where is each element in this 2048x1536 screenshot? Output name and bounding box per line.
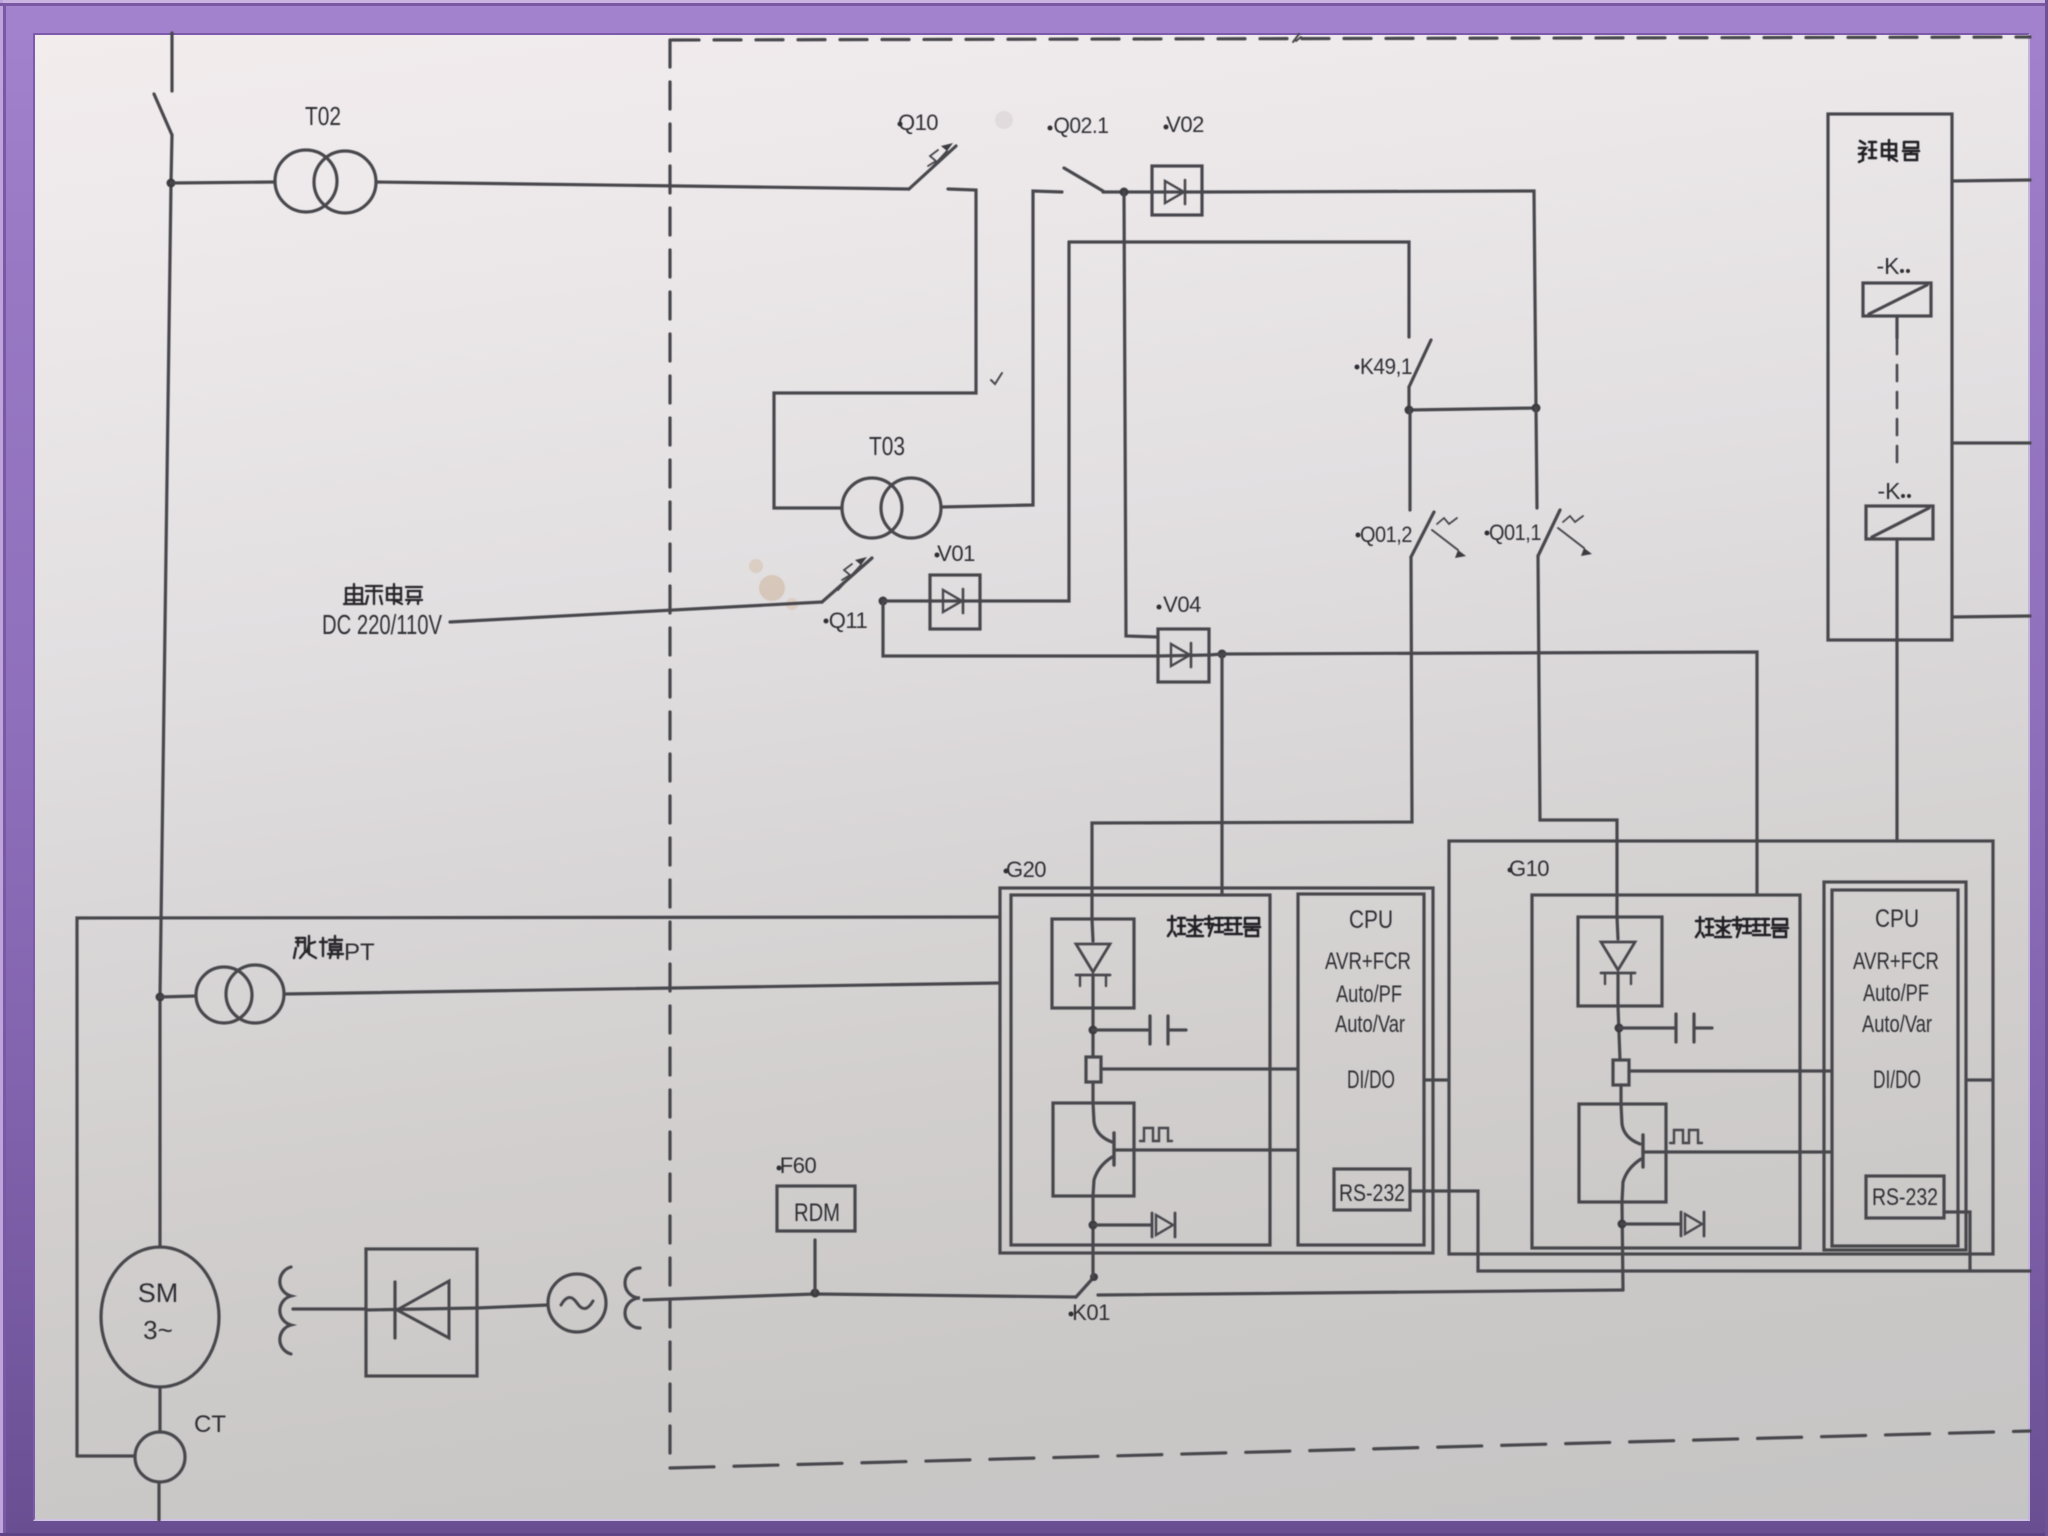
svg-text:Q01,2: Q01,2 — [1360, 522, 1412, 547]
wire: junction to PT — [160, 996, 196, 997]
wire: Q11 to V01 — [883, 599, 930, 602]
wire: T03 up to Q02.1 — [941, 191, 1062, 507]
dashed enclosure box (excitation cabinet boundary) — [670, 37, 2030, 1468]
inductor: exciter stator winding — [625, 1268, 640, 1328]
svg-text:SM: SM — [138, 1278, 179, 1308]
current transformer CT — [135, 1432, 185, 1482]
transformer T03 — [842, 478, 941, 538]
wire: relay chain upper — [1895, 316, 1898, 338]
wire: G10 column below chopper — [1622, 1202, 1623, 1290]
wire: V02 output over and down — [1202, 191, 1536, 408]
label K01 — [1069, 1312, 1074, 1317]
svg-text:Auto/PF: Auto/PF — [1336, 981, 1402, 1008]
node: T02 tap junction — [167, 179, 176, 188]
node: RDM tap junction — [811, 1289, 820, 1298]
label G20 — [1004, 869, 1009, 874]
wire: DC branch down to V04 — [883, 601, 1158, 656]
label Q10 — [898, 122, 903, 127]
svg-text:V01: V01 — [937, 541, 975, 566]
switch Q02.1 — [1064, 168, 1103, 191]
wire: relay stub middle to edge — [1952, 441, 2030, 444]
svg-text:K49,1: K49,1 — [1360, 354, 1412, 379]
block G10 power converter box — [1532, 895, 1800, 1248]
wire: T02 to Q10 — [376, 182, 909, 189]
wire: RDM drop — [813, 1240, 816, 1293]
artifact tick on top dashed line — [1293, 34, 1301, 42]
wire: left leg bottom link to CT — [77, 1454, 135, 1457]
switch Q10 — [909, 143, 956, 189]
wire: G20 DI/DO external stub — [1424, 1078, 1449, 1081]
sensor square G10 (firing interface) — [1613, 1060, 1629, 1085]
svg-text:Q11: Q11 — [829, 608, 868, 633]
wire: Q10 output down and over to T03 — [774, 189, 976, 508]
capacitor: G10 snubber — [1619, 1014, 1712, 1042]
switch: generator bus disconnect (top-left) — [154, 94, 172, 135]
svg-text:K01: K01 — [1072, 1300, 1110, 1325]
wire: main generator bus vertical (top segment) — [170, 33, 173, 91]
label 功率转换器 (power converter) G20 — [1168, 916, 1260, 936]
label 继电器 (relay) — [1859, 140, 1919, 162]
wire: V01 output riser to K49.1 feeder — [980, 242, 1069, 601]
wire: G20 RS-232 comm line to edge — [1410, 1191, 2030, 1271]
wire: V02 junction drop to V04 — [1124, 192, 1158, 637]
wire: G10 RS-232 comm stub — [1944, 1212, 1970, 1271]
transistor Q20 (G20 chopper) — [1053, 1103, 1134, 1196]
node: G20 snubber junction — [1089, 1026, 1098, 1035]
svg-text:-K: -K — [1878, 478, 1902, 504]
svg-text:V04: V04 — [1163, 592, 1201, 617]
svg-text:CPU: CPU — [1875, 905, 1919, 933]
node: G20 freewheel junction — [1089, 1221, 1098, 1230]
node: V04 output junction — [1218, 650, 1227, 659]
wire: excitation bus right of K01 — [1098, 1290, 1623, 1295]
wire: G10 interface to CPU (DI/DO) — [1629, 1069, 1832, 1072]
svg-text:DI/DO: DI/DO — [1873, 1066, 1921, 1094]
wire: G20 interface to CPU (DI/DO) — [1101, 1067, 1298, 1070]
pulse symbol G20 — [1140, 1128, 1172, 1141]
node: junction right — [1532, 404, 1541, 413]
wire: relay cabinet feed to G10 — [1895, 640, 1898, 841]
svg-text:-K: -K — [1877, 253, 1901, 279]
wire: G10 interface to IGBT — [1619, 1085, 1622, 1104]
source: AC exciter generator — [548, 1274, 606, 1332]
wire: relay chain dashed — [1896, 338, 1899, 469]
wire: bus vertical below switch — [160, 135, 172, 1247]
block G10 outer box (AVR channel 1) — [1449, 841, 1993, 1254]
label F60 — [777, 1166, 782, 1171]
svg-text:AVR+FCR: AVR+FCR — [1853, 948, 1939, 975]
svg-text:G10: G10 — [1509, 856, 1549, 881]
switch Q01.2 — [1411, 512, 1466, 558]
svg-text:Auto/PF: Auto/PF — [1863, 980, 1929, 1007]
wire: excitation bus left of K01 — [644, 1294, 1076, 1300]
label Q11 — [824, 619, 829, 624]
transistor Q10a (G10 chopper) — [1579, 1104, 1666, 1202]
wire: G20 thyristor to gate square — [1091, 1008, 1094, 1057]
block G20 outer box (AVR channel 2) — [1000, 888, 1433, 1253]
dashed enclosure bottom edge — [670, 1431, 2030, 1468]
node: V02 input junction — [1120, 188, 1129, 197]
thyristor U10 (G10 bridge arm) — [1578, 917, 1662, 1006]
wire: G10 DI/DO external stub — [1966, 1078, 1993, 1081]
thyristor U20 (G20 bridge arm) — [1052, 919, 1134, 1008]
svg-text:V02: V02 — [1166, 112, 1204, 137]
relay K.. lower — [1866, 506, 1933, 539]
transformer T02 — [275, 150, 376, 213]
wire: junction to T02 — [171, 182, 275, 183]
capacitor: G20 snubber — [1093, 1016, 1186, 1044]
svg-text:RDM: RDM — [794, 1199, 840, 1227]
wire: G20 column below chopper — [1091, 1196, 1094, 1277]
svg-text:Q02.1: Q02.1 — [1054, 113, 1109, 138]
diode V01 — [930, 575, 980, 629]
wire: G10 thyristor to gate square — [1618, 1006, 1620, 1060]
label 励磁PT — [294, 936, 343, 958]
node: Q11 output junction — [879, 597, 888, 606]
wire: stator sensing upper feeder to G20 — [77, 917, 1000, 1456]
switch Q01.1 — [1538, 510, 1592, 556]
svg-text:G20: G20 — [1006, 857, 1046, 882]
svg-text:AVR+FCR: AVR+FCR — [1325, 948, 1411, 975]
svg-text:F60: F60 — [780, 1153, 817, 1178]
node: PT tap junction — [156, 993, 165, 1002]
wire: K49.1 to junction row — [1407, 387, 1410, 410]
rectifier bridge (rotating rectifier) — [366, 1249, 477, 1376]
wire: K49.1 feeder from V01 riser — [1069, 242, 1409, 337]
node: G10 freewheel junction — [1618, 1220, 1627, 1229]
wire: field winding to rectifier — [293, 1307, 366, 1310]
label V01 — [935, 553, 940, 558]
svg-text:Q10: Q10 — [898, 110, 938, 135]
svg-text:T03: T03 — [869, 431, 905, 461]
block G20 CPU box — [1298, 894, 1424, 1245]
switch Q11 — [822, 557, 872, 602]
wire: SM to CT — [158, 1387, 161, 1432]
label V02 — [1164, 125, 1169, 130]
svg-text:RS-232: RS-232 — [1339, 1180, 1405, 1207]
wire: Q01.2 down to G20 thyristor column — [1092, 557, 1412, 919]
diode: G20 freewheel — [1093, 1213, 1175, 1237]
node: G10 snubber junction — [1615, 1024, 1624, 1033]
node: junction left — [1405, 406, 1414, 415]
svg-text:PT: PT — [344, 939, 375, 966]
diode V02 — [1152, 166, 1202, 215]
relay K.. upper — [1863, 283, 1931, 316]
svg-text:3~: 3~ — [143, 1315, 173, 1345]
wire: relay chain lower — [1895, 539, 1898, 640]
label V04 — [1157, 605, 1162, 610]
transformer PT (excitation PT) — [196, 965, 284, 1023]
svg-text:DC 220/110V: DC 220/110V — [322, 609, 442, 640]
wire: drop to Q01.1 — [1536, 408, 1537, 508]
svg-text:Q01,1: Q01,1 — [1489, 520, 1541, 545]
svg-text:Auto/Var: Auto/Var — [1862, 1011, 1932, 1038]
svg-text:Auto/Var: Auto/Var — [1335, 1011, 1405, 1038]
block relay cabinet 继电器 — [1828, 114, 1952, 640]
wire: V04 output across to G10 converter — [1222, 652, 1757, 895]
inductor: rotor field winding — [280, 1267, 291, 1354]
pulse symbol G10 — [1670, 1130, 1702, 1143]
svg-text:RS-232: RS-232 — [1872, 1184, 1938, 1211]
label DC supply (Chinese) 直流电源 — [344, 584, 422, 604]
wire: G10 gate line to CPU — [1643, 1150, 1832, 1153]
svg-text:CPU: CPU — [1349, 906, 1393, 934]
label Q01.2 — [1356, 533, 1361, 538]
sensor square G20 (firing interface) — [1086, 1057, 1101, 1082]
wire: relay stub bottom to edge — [1952, 616, 2030, 617]
wire: Q01.1 down to G10 thyristor column — [1538, 556, 1617, 917]
port RS-232 G20 — [1334, 1169, 1410, 1210]
diode: G10 freewheel — [1622, 1212, 1704, 1236]
wire: DC supply to Q11 — [450, 602, 822, 622]
port RS-232 G10 — [1866, 1176, 1944, 1218]
label 功率转换器 (power converter) G10 — [1696, 917, 1788, 937]
wire: drop to Q01.2 — [1408, 410, 1411, 510]
device F60 RDM (de-excitation resistor module) — [777, 1186, 855, 1231]
label K49.1 — [1355, 365, 1360, 370]
wire: rectifier to exciter source — [477, 1305, 548, 1308]
label Q01.1 — [1485, 531, 1490, 536]
artifact check mark near riser — [991, 373, 1002, 384]
wire: G20 interface to IGBT — [1091, 1082, 1094, 1103]
svg-text:T02: T02 — [305, 101, 341, 131]
block G20 power converter box — [1011, 895, 1270, 1245]
wire: G20 gate line to CPU — [1114, 1148, 1298, 1151]
wire: CT to paper edge — [157, 1482, 160, 1520]
wire: PT output to G20 — [284, 983, 1000, 994]
wire: Q02.1 to V02 — [1103, 190, 1152, 193]
svg-text:DI/DO: DI/DO — [1347, 1066, 1395, 1094]
paper stains (decorative) — [749, 111, 1013, 610]
label G10 — [1508, 868, 1513, 873]
label Q02.1 — [1048, 126, 1053, 131]
svg-text:CT: CT — [194, 1411, 226, 1438]
switch K49.1 — [1409, 340, 1431, 387]
wire: junction row linking K49.1 and V02 branches — [1409, 408, 1536, 410]
wire: relay stub top to edge — [1952, 180, 2030, 181]
switch K01 (field switch) — [1076, 1273, 1098, 1297]
wire: V04 output to G20 converter — [1209, 654, 1222, 895]
block G10 CPU box (double border) — [1824, 882, 1966, 1250]
machine SM (synchronous machine) — [101, 1247, 219, 1387]
diode V04 — [1158, 629, 1209, 682]
